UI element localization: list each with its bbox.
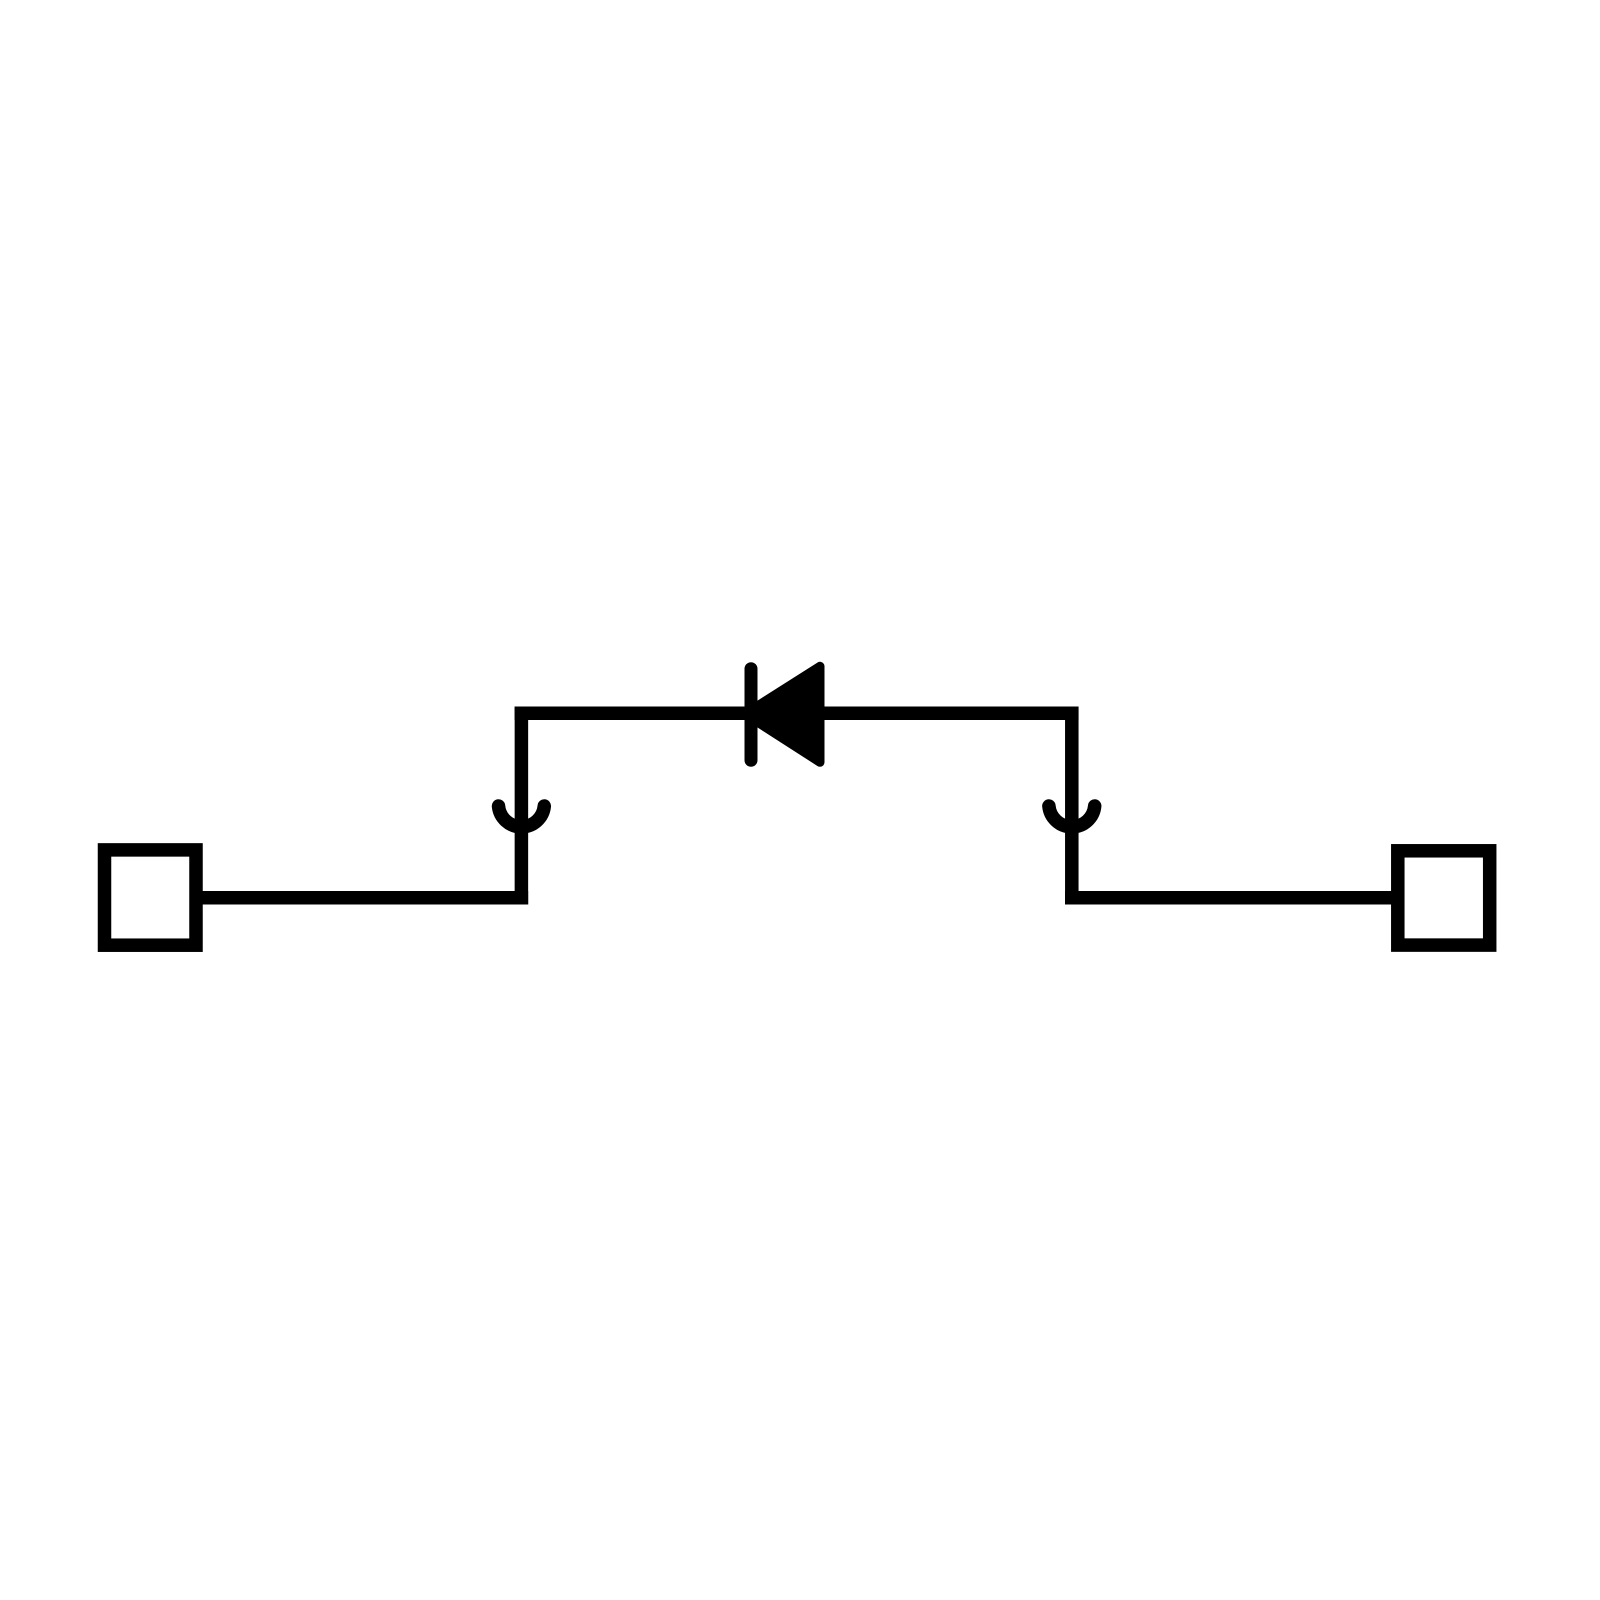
diode D1 anode triangle (pointing left) xyxy=(745,666,820,762)
clamp contact left xyxy=(499,806,545,827)
clamp contact right xyxy=(1049,806,1095,827)
wire: right riser to pin 2 xyxy=(1072,891,1391,905)
terminal square left (pin 1) xyxy=(105,850,197,945)
wire: left vertical riser xyxy=(515,713,529,898)
wire: pin 1 to left riser xyxy=(200,891,521,905)
wire: right vertical riser xyxy=(1065,713,1079,898)
terminal square right (pin 2) xyxy=(1398,851,1490,945)
wire: top horizontal (left riser to right riser, through diode) xyxy=(521,706,1071,720)
diode D1 cathode bar xyxy=(745,669,758,761)
